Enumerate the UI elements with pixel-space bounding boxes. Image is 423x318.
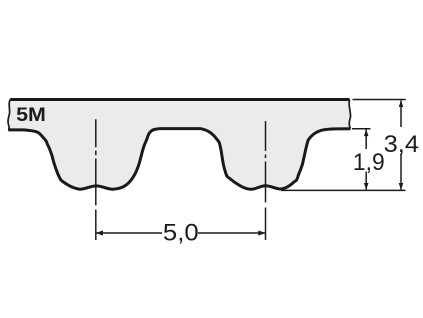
dimension 3,4 line lower segment [400, 154, 402, 190]
dimension 3,4 line upper segment [400, 100, 402, 127]
centerline tooth 2 [265, 121, 267, 240]
arrow 1,9 top [364, 129, 369, 136]
svg-text:3,4: 3,4 [384, 131, 419, 158]
belt toothed bottom contour [8, 129, 350, 190]
belt top edge [10, 98, 349, 101]
svg-text:1,9: 1,9 [353, 149, 385, 176]
svg-text:5,0: 5,0 [163, 219, 199, 246]
belt cross-section fill [8, 100, 351, 190]
centerline tooth 1 [95, 119, 97, 240]
dimension 1,9 line lower segment [365, 172, 367, 190]
left break (wavy) edge [8, 100, 10, 130]
right break (wavy) edge [349, 100, 351, 129]
arrow 3,4 top [399, 100, 404, 107]
svg-text:5M: 5M [16, 104, 46, 126]
dimension 1,9 line upper segment [365, 129, 367, 149]
extension line land level [352, 128, 371, 130]
arrow left of 5,0 [96, 230, 103, 235]
extension line tooth bottom [281, 189, 406, 191]
dimension 5,0 line right segment [198, 232, 266, 234]
arrow right of 5,0 [258, 230, 265, 235]
arrow 3,4 bottom [399, 183, 404, 190]
dimension 5,0 line left segment [96, 232, 162, 234]
extension line belt top right [353, 99, 406, 101]
arrow 1,9 bottom [364, 183, 369, 190]
